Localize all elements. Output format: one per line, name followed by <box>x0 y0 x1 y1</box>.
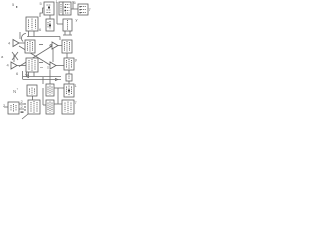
svg-text:y: y <box>75 57 77 62</box>
svg-text:y: y <box>76 17 78 22</box>
